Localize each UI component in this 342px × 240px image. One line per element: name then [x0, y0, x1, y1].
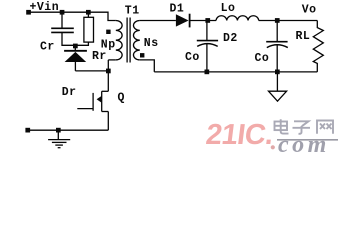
- svg-text:Cr: Cr: [40, 40, 55, 53]
- svg-text:D2: D2: [223, 32, 238, 45]
- svg-text:T1: T1: [125, 4, 140, 17]
- svg-text:com: com: [278, 132, 330, 158]
- svg-text:Co: Co: [185, 51, 200, 64]
- svg-text:Rr: Rr: [92, 50, 107, 63]
- svg-text:RL: RL: [296, 30, 311, 43]
- svg-text:D1: D1: [170, 3, 185, 16]
- svg-text:Co: Co: [255, 52, 270, 65]
- svg-text:+Vin: +Vin: [30, 1, 60, 14]
- svg-text:Q: Q: [118, 91, 125, 104]
- svg-text:Lo: Lo: [221, 2, 236, 15]
- svg-text:21IC.: 21IC.: [204, 119, 275, 151]
- svg-text:Dr: Dr: [62, 86, 77, 99]
- svg-text:Vo: Vo: [302, 3, 317, 16]
- svg-text:Ns: Ns: [144, 37, 159, 50]
